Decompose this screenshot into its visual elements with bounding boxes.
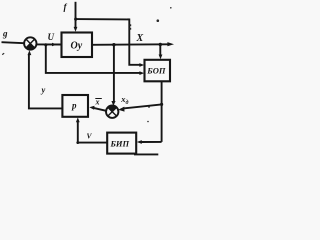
svg-text:y: y: [41, 85, 46, 95]
svg-text:БОП: БОП: [146, 66, 166, 76]
nub on f-tap vertical upper: [130, 24, 132, 26]
wire U-tap: down and right into BOP: [46, 45, 140, 73]
summer S2: [106, 105, 118, 117]
svg-text:Оу: Оу: [71, 41, 83, 52]
wire U: summer S1 to OU: [37, 43, 62, 45]
arrowhead S2 out into P right: [89, 106, 94, 110]
wire BOP output down: [161, 81, 163, 142]
arrowhead V into P bottom: [76, 117, 80, 122]
svg-text:g: g: [2, 29, 8, 39]
block BOP: [145, 60, 171, 82]
arrowhead into OU left: [52, 43, 57, 47]
speck right lower: [147, 121, 149, 123]
arrowhead Xd into S2 right: [118, 107, 124, 112]
wire y: P left side to summer S1 bottom: [29, 55, 63, 109]
wire X-tap down to BOP top: [159, 45, 161, 56]
wire f-tap: top horizontal, down, into BOP: [76, 19, 140, 65]
wire Xd into summer S2: [124, 104, 162, 108]
speck top right: [170, 7, 172, 9]
junction dot X to BOP: [159, 43, 162, 46]
wire X-tap down to summer S2: [113, 45, 115, 102]
wire V: BIP left up into P bottom: [78, 122, 107, 143]
arrowhead U-tap into BOP left: [139, 71, 144, 75]
overline of x-bar: [95, 98, 102, 100]
arrowhead y into S1 bottom: [28, 50, 32, 55]
svg-text:БИП: БИП: [110, 139, 130, 149]
svg-text:U: U: [48, 32, 55, 42]
arrowhead into S2 top: [111, 101, 115, 106]
speck near X label: [157, 19, 160, 22]
arrowhead X line end: [167, 42, 174, 46]
summer S1: [24, 37, 36, 49]
stray line fragment bottom right: [134, 153, 158, 155]
junction dot on f wire: [74, 18, 77, 21]
wire into BIP right side: [141, 141, 161, 143]
junction dot X to S2: [112, 43, 115, 46]
svg-text:р: р: [71, 101, 77, 111]
arrowhead into BOP top: [159, 55, 163, 60]
speck under g: [2, 53, 5, 55]
block OU (plant): [62, 33, 93, 58]
arrowhead f into OU top: [74, 27, 78, 32]
svg-text:X: X: [136, 33, 144, 44]
junction dot Xd branch: [160, 103, 163, 106]
wire f vertical into OU: [75, 2, 77, 29]
junction dot V corner: [76, 141, 79, 144]
block BIP: [107, 133, 136, 154]
arrowhead f-tap into BOP left: [139, 63, 144, 67]
block P (regulator): [62, 95, 88, 117]
wire X output line: [92, 43, 168, 46]
wire S2 output into P right side: [94, 108, 107, 111]
wire g input: [2, 42, 25, 43]
arrowhead into BIP right: [137, 140, 142, 144]
junction dot on U wire: [44, 43, 47, 46]
nub on f-tap vertical lower: [130, 28, 132, 30]
speck right mid: [148, 106, 150, 108]
